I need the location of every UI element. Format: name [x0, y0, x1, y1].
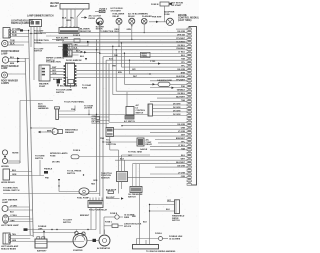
- svg-text:SWITCH (8 WIRE): SWITCH (8 WIRE): [11, 22, 31, 25]
- svg-text:BLK: BLK: [181, 55, 186, 57]
- svg-text:DK GRN: DK GRN: [173, 110, 181, 112]
- svg-text:BRN: BRN: [10, 63, 15, 65]
- svg-text:BLK: BLK: [143, 222, 147, 224]
- svg-text:DIODE: DIODE: [89, 18, 96, 20]
- svg-text:TO DIRECTION: TO DIRECTION: [46, 62, 61, 64]
- svg-text:TO A/C FUSE PANEL: TO A/C FUSE PANEL: [64, 101, 85, 104]
- svg-text:PNK WHT: PNK WHT: [152, 17, 162, 19]
- svg-text:FUSE: FUSE: [50, 156, 56, 158]
- svg-text:DK BLU: DK BLU: [178, 93, 186, 95]
- svg-text:PNK: PNK: [100, 138, 105, 140]
- svg-text:DK GRN: DK GRN: [173, 103, 181, 105]
- svg-text:TAN: TAN: [10, 39, 15, 42]
- svg-text:RELAY: RELAY: [128, 15, 135, 18]
- svg-text:ORN: ORN: [93, 180, 98, 182]
- svg-text:FUEL PUMP: FUEL PUMP: [77, 197, 89, 199]
- svg-text:LINK: LINK: [38, 229, 43, 231]
- svg-text:!: !: [5, 58, 6, 62]
- svg-text:RELAY: RELAY: [50, 5, 58, 8]
- svg-text:LT GRN: LT GRN: [10, 205, 17, 207]
- svg-text:RELAY: RELAY: [113, 15, 120, 18]
- svg-text:TAN: TAN: [91, 183, 95, 186]
- svg-text:A/C SWITCH: A/C SWITCH: [124, 120, 136, 123]
- svg-text:HARNESS: HARNESS: [38, 107, 49, 110]
- svg-text:FUSE B: FUSE B: [151, 4, 159, 6]
- svg-text:DK GRN: DK GRN: [173, 114, 181, 116]
- svg-text:FUSE C: FUSE C: [105, 222, 113, 224]
- svg-text:DK BLU: DK BLU: [178, 45, 186, 47]
- svg-text:BLU: BLU: [115, 31, 120, 33]
- svg-text:PPL/WHT: PPL/WHT: [176, 38, 186, 40]
- svg-text:SPLICE: SPLICE: [124, 226, 132, 228]
- svg-text:PNK/BLK: PNK/BLK: [44, 169, 53, 171]
- svg-text:BRN: BRN: [47, 130, 52, 132]
- svg-text:PUMP: PUMP: [39, 86, 46, 88]
- svg-text:OR START: OR START: [171, 4, 182, 7]
- svg-text:TO DIRECTION: TO DIRECTION: [100, 31, 114, 33]
- svg-text:FUSE 4: FUSE 4: [73, 149, 81, 152]
- svg-text:LT BLU: LT BLU: [178, 145, 185, 147]
- svg-text:BLK/WHT: BLK/WHT: [176, 97, 186, 99]
- svg-text:SWITCH: SWITCH: [34, 33, 43, 35]
- svg-text:LT GRN: LT GRN: [178, 131, 186, 133]
- svg-text:TAN/BLK: TAN/BLK: [177, 89, 186, 92]
- svg-text:FUEL PUMP RELAY: FUEL PUMP RELAY: [89, 208, 108, 211]
- svg-text:BLK: BLK: [12, 32, 17, 34]
- svg-text:BULKHEAD CONN: BULKHEAD CONN: [60, 85, 78, 88]
- svg-text:FUSE A: FUSE A: [155, 232, 162, 235]
- svg-text:ORN: ORN: [181, 128, 186, 130]
- svg-text:TAN: TAN: [181, 147, 185, 150]
- svg-text:TAN: TAN: [181, 99, 185, 102]
- svg-text:LAMP: LAMP: [1, 67, 8, 70]
- svg-text:PNK: PNK: [181, 86, 186, 88]
- svg-text:ORN: ORN: [181, 176, 186, 178]
- svg-text:ALTERNATOR: ALTERNATOR: [97, 247, 111, 250]
- svg-text:SEALED BEAM: SEALED BEAM: [1, 248, 16, 251]
- svg-text:BLK WHT: BLK WHT: [106, 197, 115, 199]
- svg-text:DK GRN: DK GRN: [173, 107, 181, 109]
- svg-text:BRN/WHT: BRN/WHT: [80, 215, 90, 217]
- svg-text:DOOR JAMB SW: DOOR JAMB SW: [66, 59, 82, 62]
- svg-text:SWITCH: SWITCH: [34, 51, 43, 53]
- svg-text:LIGHTER: LIGHTER: [84, 108, 93, 110]
- svg-text:BLK: BLK: [12, 170, 17, 172]
- svg-text:HORNS: HORNS: [1, 166, 9, 168]
- svg-text:14 GA WIRE: 14 GA WIRE: [169, 237, 181, 240]
- svg-text:PNK: PNK: [71, 109, 76, 111]
- svg-text:C 100: C 100: [150, 61, 155, 63]
- svg-text:GAUGE: GAUGE: [140, 148, 148, 151]
- svg-text:GRN: GRN: [12, 174, 17, 176]
- svg-text:OR START: OR START: [111, 9, 122, 12]
- svg-text:PNK/BLK: PNK/BLK: [176, 48, 185, 50]
- svg-text:BRN/WHT: BRN/WHT: [176, 138, 186, 140]
- svg-text:STARTER: STARTER: [73, 249, 83, 252]
- svg-text:LT BLU: LT BLU: [178, 52, 185, 54]
- svg-text:GRN: GRN: [127, 29, 132, 31]
- svg-text:ORN 440: ORN 440: [177, 33, 185, 36]
- svg-text:LT BLU: LT BLU: [11, 215, 18, 217]
- svg-text:DK GRN: DK GRN: [52, 161, 60, 163]
- svg-text:BRN: BRN: [181, 72, 186, 74]
- svg-text:ORN: ORN: [52, 73, 57, 75]
- svg-text:SWITCH: SWITCH: [172, 220, 180, 222]
- svg-text:BLU: BLU: [10, 57, 15, 59]
- svg-text:DK GRN: DK GRN: [177, 124, 185, 126]
- svg-text:HORN: HORN: [12, 152, 19, 154]
- svg-text:GAUGES FUSE: GAUGES FUSE: [157, 79, 173, 82]
- svg-text:LAMP DIMMER SWITCH: LAMP DIMMER SWITCH: [27, 14, 54, 17]
- svg-text:BLK/PNK: BLK/PNK: [176, 76, 185, 78]
- svg-text:LEFT PARK LAMP: LEFT PARK LAMP: [1, 224, 19, 227]
- svg-text:TO VEHICLE WIRING HARNESS: TO VEHICLE WIRING HARNESS: [146, 250, 176, 253]
- svg-text:DK GRN: DK GRN: [177, 31, 185, 33]
- svg-text:FUSE: FUSE: [82, 88, 88, 90]
- svg-text:BATTERY: BATTERY: [37, 250, 47, 253]
- svg-text:WASHER: WASHER: [65, 131, 75, 134]
- svg-text:RELAY: RELAY: [146, 143, 153, 146]
- svg-text:ORN: ORN: [66, 20, 71, 22]
- svg-text:LT GRN: LT GRN: [178, 172, 186, 174]
- svg-text:BLK: BLK: [10, 211, 14, 213]
- svg-text:TAN: TAN: [12, 34, 17, 37]
- svg-text:PPL/WHT: PPL/WHT: [176, 79, 186, 81]
- svg-text:SWITCH: SWITCH: [56, 92, 65, 94]
- svg-text:PANEL: PANEL: [142, 55, 149, 58]
- svg-text:SWITCH: SWITCH: [136, 112, 144, 114]
- svg-text:BLK: BLK: [80, 56, 85, 58]
- svg-text:BLK: BLK: [120, 158, 125, 160]
- svg-text:BLK: BLK: [76, 51, 81, 53]
- svg-text:(LEFT SIDE): (LEFT SIDE): [178, 20, 192, 22]
- svg-text:DK GRN: DK GRN: [177, 166, 185, 168]
- svg-text:BLK: BLK: [10, 44, 15, 46]
- svg-text:BLK: BLK: [92, 118, 97, 120]
- svg-text:HEATER: HEATER: [50, 2, 59, 5]
- svg-text:GRY: GRY: [181, 134, 186, 136]
- svg-text:SENSOR: SENSOR: [101, 178, 110, 180]
- svg-text:FUSE 8: FUSE 8: [73, 35, 81, 37]
- svg-text:TAN: TAN: [181, 58, 185, 61]
- svg-text:FUSE: FUSE: [164, 14, 170, 16]
- svg-text:LAMPS: LAMPS: [1, 82, 9, 85]
- svg-text:HORN RELAY: HORN RELAY: [1, 181, 16, 184]
- svg-text:PNK: PNK: [45, 177, 50, 179]
- svg-text:SWITCH: SWITCH: [35, 158, 44, 160]
- svg-text:WIRE: WIRE: [124, 217, 130, 219]
- svg-text:SIGNAL SWITCH: SIGNAL SWITCH: [3, 189, 20, 192]
- svg-text:RED: RED: [132, 216, 137, 218]
- svg-text:LT GRN: LT GRN: [12, 29, 21, 31]
- svg-text:BLK: BLK: [166, 209, 170, 211]
- svg-text:FLASHER: FLASHER: [142, 15, 152, 18]
- svg-text:BLK: BLK: [181, 155, 186, 157]
- svg-text:BLK/WHT: BLK/WHT: [176, 162, 186, 164]
- svg-text:SWITCH: SWITCH: [56, 40, 65, 42]
- svg-text:GRY: GRY: [52, 70, 57, 72]
- svg-text:LAMP: LAMP: [1, 53, 8, 56]
- svg-text:JUNCTION: JUNCTION: [106, 144, 117, 146]
- svg-text:SWITCH: SWITCH: [128, 197, 136, 199]
- svg-text:LAMP: LAMP: [2, 201, 9, 204]
- svg-text:SWITCH: SWITCH: [67, 173, 76, 175]
- svg-text:SWITCH: SWITCH: [63, 222, 71, 224]
